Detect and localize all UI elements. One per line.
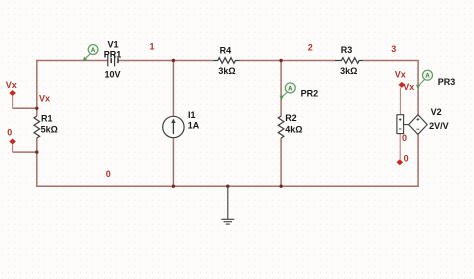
svg-text:Vx: Vx	[395, 69, 406, 79]
svg-text:R3: R3	[341, 45, 353, 55]
wire: battery to R4 left lead	[118, 60, 214, 62]
node 0 marker (right)	[397, 134, 404, 166]
svg-text:1A: 1A	[188, 120, 200, 130]
wire: left branch top corner to battery	[37, 61, 108, 117]
svg-text:2: 2	[308, 43, 313, 53]
svg-text:PR2: PR2	[301, 88, 319, 98]
svg-text:3kΩ: 3kΩ	[218, 66, 235, 76]
svg-text:Vx: Vx	[6, 80, 17, 90]
svg-text:0: 0	[404, 154, 409, 164]
node Vx marker (right)	[399, 82, 406, 115]
junction bottom ground	[226, 185, 229, 188]
svg-text:A: A	[425, 74, 430, 80]
svg-text:5kΩ: 5kΩ	[41, 125, 58, 135]
svg-text:4kΩ: 4kΩ	[285, 124, 302, 134]
wire: 0 marker stub to left branch	[13, 151, 37, 153]
junction bottom I1	[172, 185, 175, 188]
svg-text:3kΩ: 3kΩ	[340, 66, 357, 76]
probe PR1	[83, 45, 98, 62]
wire: R3 to right corner down to V2 top	[363, 61, 418, 115]
svg-text:R2: R2	[285, 113, 297, 123]
svg-text:2V/V: 2V/V	[429, 121, 449, 131]
svg-text:V2: V2	[431, 107, 442, 117]
svg-text:V1: V1	[108, 40, 119, 50]
resistor R2	[278, 116, 284, 138]
svg-text:0: 0	[402, 133, 407, 143]
svg-text:A: A	[288, 86, 293, 92]
dependent source V2 (VCVS)	[397, 115, 427, 135]
svg-text:Vx: Vx	[39, 93, 50, 103]
node Vx marker (left)	[9, 90, 16, 108]
svg-text:10V: 10V	[105, 69, 121, 79]
resistor R4	[214, 58, 240, 64]
svg-text:3: 3	[391, 44, 396, 54]
svg-text:1: 1	[149, 42, 154, 52]
wire: R2 bottom to bottom rail	[280, 138, 282, 186]
current source I1	[163, 116, 184, 137]
probe PR3	[416, 70, 433, 89]
svg-text:R4: R4	[220, 45, 232, 55]
wire: V2 bottom, bottom rail, left branch lower	[37, 134, 418, 186]
wire: node 2 down to R2 top	[280, 61, 282, 117]
svg-text:PR3: PR3	[438, 77, 456, 87]
battery V1	[108, 55, 118, 67]
wire: Vx marker stub to left branch	[13, 107, 37, 109]
svg-text:I1: I1	[188, 110, 196, 120]
resistor R1	[34, 116, 40, 138]
resistor R3	[335, 58, 363, 64]
wire: node 1 down to I1 top	[172, 61, 174, 117]
junction 0 stub	[35, 150, 38, 153]
junction Vx stub	[35, 107, 38, 110]
ground	[221, 186, 234, 224]
svg-text:0: 0	[106, 169, 111, 179]
probe PR2	[280, 83, 296, 100]
node 0 marker (left)	[9, 139, 16, 153]
svg-text:0: 0	[7, 128, 12, 138]
svg-text:PR1: PR1	[104, 50, 122, 60]
svg-text:R1: R1	[41, 114, 53, 124]
wire: R4 to R3	[240, 60, 336, 62]
svg-text:Vx: Vx	[403, 82, 414, 92]
svg-text:A: A	[91, 48, 96, 54]
junction node 2	[279, 59, 282, 62]
wire: I1 bottom to bottom rail	[172, 138, 174, 187]
junction node 1	[172, 59, 175, 62]
junction bottom R2	[279, 185, 282, 188]
